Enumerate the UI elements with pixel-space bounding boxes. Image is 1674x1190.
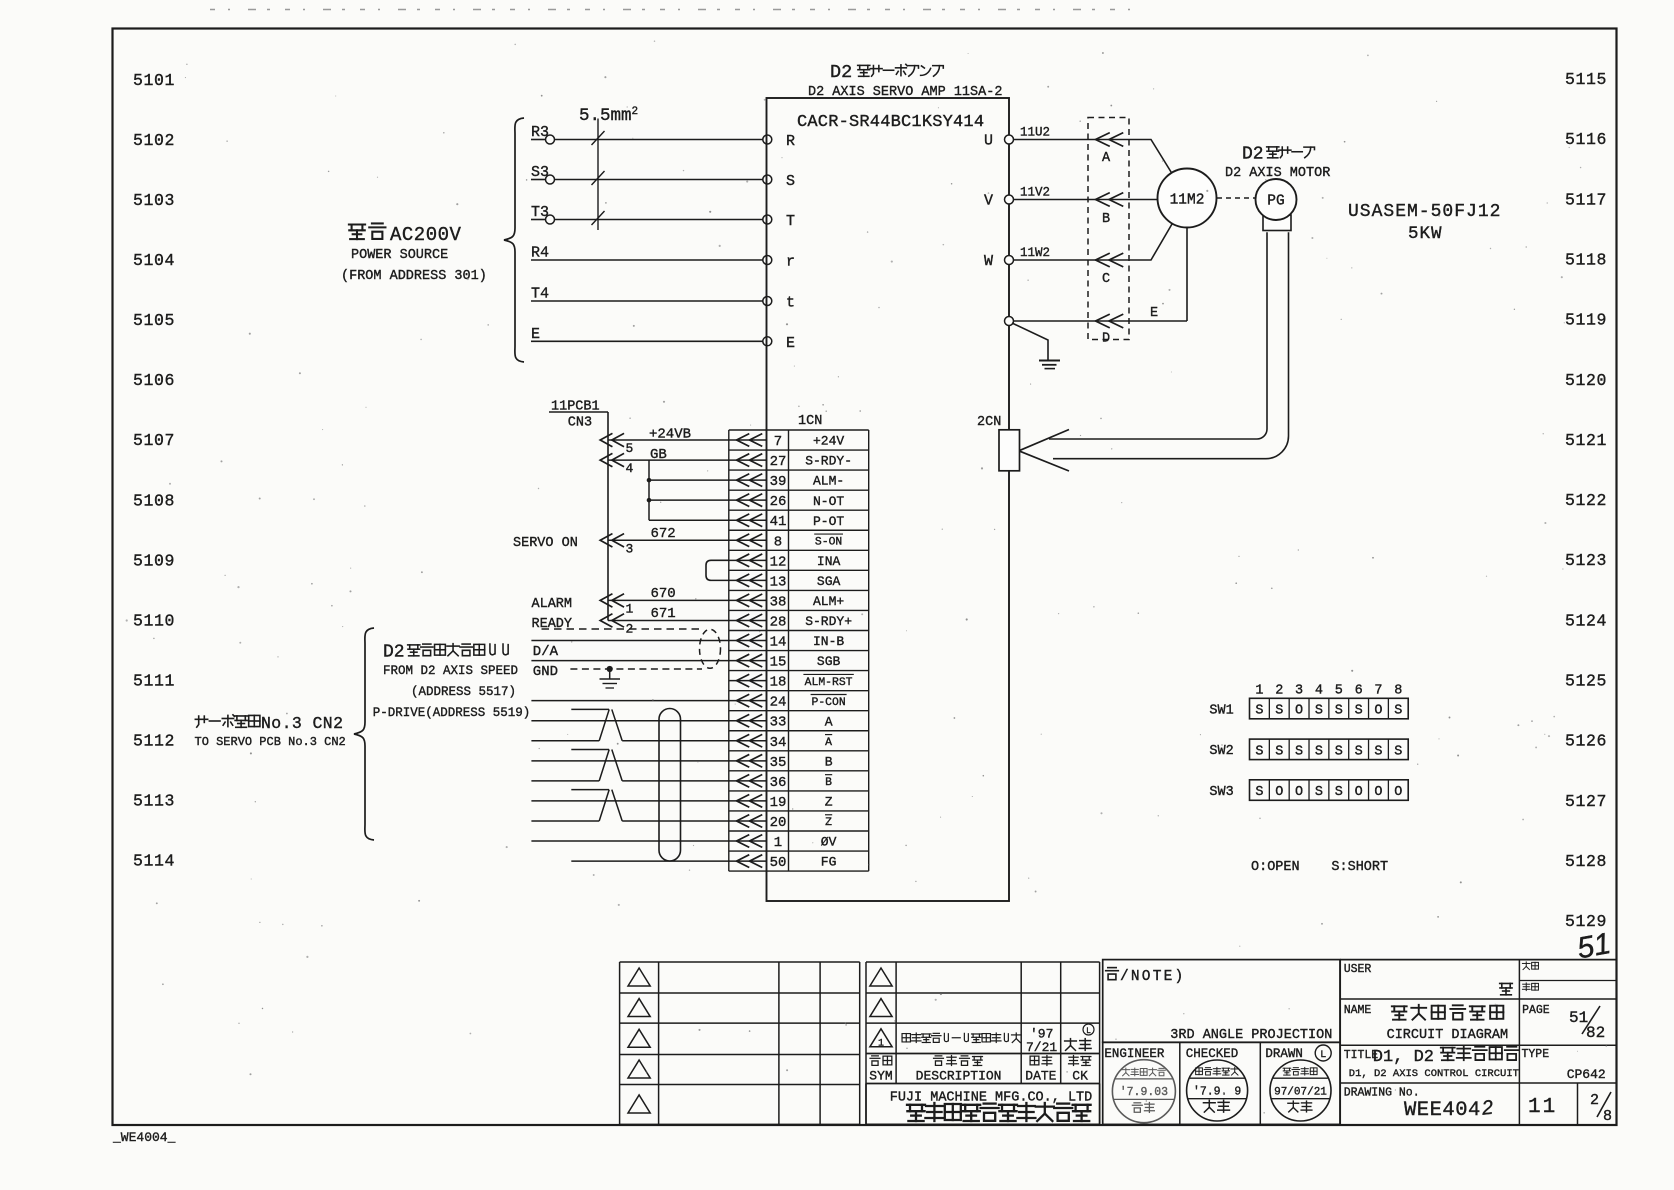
svg-text:5123: 5123 — [1565, 551, 1607, 570]
svg-text:39: 39 — [770, 474, 787, 490]
twisted pair rows 15-16 — [571, 708, 609, 710]
svg-text:DRAWING No.: DRAWING No. — [1344, 1087, 1420, 1100]
CN3 wire pin 3 — [608, 539, 729, 541]
svg-text:1: 1 — [626, 601, 634, 616]
svg-text:E: E — [531, 326, 540, 343]
1CN pin 7 +24V — [729, 439, 767, 441]
1CN pin 19 Z — [729, 800, 767, 802]
1CN pin 39 ALM- — [729, 479, 767, 481]
svg-text:WEE404: WEE404 — [1404, 1099, 1481, 1122]
svg-text:11: 11 — [1528, 1096, 1557, 1119]
svg-text:8: 8 — [1394, 683, 1402, 698]
svg-text:D2 AXIS MOTOR: D2 AXIS MOTOR — [1225, 166, 1330, 181]
svg-text:2: 2 — [1480, 1097, 1494, 1120]
svg-text:AC200V: AC200V — [390, 224, 462, 246]
svg-text:670: 670 — [651, 586, 676, 602]
power source labels — [349, 225, 365, 240]
1CN pin 28 S-RDY+ — [729, 619, 767, 621]
revision triangle L1 — [628, 968, 650, 986]
svg-text:S: S — [1295, 744, 1303, 759]
svg-text:D: D — [1102, 332, 1110, 347]
svg-text:CN3: CN3 — [568, 416, 592, 431]
1CN pin 1 ØV — [729, 840, 767, 842]
amp terminal r — [763, 256, 772, 265]
svg-text:34: 34 — [770, 735, 787, 751]
svg-text:5116: 5116 — [1565, 130, 1607, 149]
amp output terminal circles — [1005, 135, 1014, 144]
svg-text:5113: 5113 — [133, 792, 175, 811]
wire T3 to amp terminal T — [531, 219, 545, 221]
svg-text:TO SERVO PCB No.3 CN2: TO SERVO PCB No.3 CN2 — [195, 735, 346, 749]
svg-text:A: A — [1102, 151, 1111, 166]
svg-text:IN-B: IN-B — [813, 634, 844, 649]
revision triangle M2 — [870, 999, 892, 1017]
svg-text:SERVO ON: SERVO ON — [513, 536, 578, 551]
svg-text:T3: T3 — [531, 204, 549, 221]
revision triangle L4 — [628, 1060, 650, 1078]
svg-text:5121: 5121 — [1565, 431, 1607, 450]
revision table middle — [866, 961, 1100, 963]
svg-text:S: S — [1275, 744, 1283, 759]
svg-text:35: 35 — [770, 755, 787, 771]
svg-text:CK: CK — [1072, 1069, 1088, 1084]
svg-text:33: 33 — [770, 715, 787, 731]
svg-text:14: 14 — [770, 635, 787, 651]
ground terminal — [1005, 317, 1014, 326]
svg-text:SGB: SGB — [817, 654, 841, 669]
stamps row — [1103, 1042, 1340, 1124]
svg-text:GB: GB — [650, 447, 667, 463]
svg-text:D/A: D/A — [533, 644, 559, 660]
svg-text:CP642: CP642 — [1567, 1067, 1606, 1082]
svg-text:SW1: SW1 — [1209, 703, 1233, 718]
svg-text:11U2: 11U2 — [1020, 126, 1050, 140]
svg-text:2CN: 2CN — [977, 415, 1001, 430]
svg-text:USER: USER — [1344, 963, 1372, 976]
svg-text:S: S — [1315, 744, 1323, 759]
revision triangle L2 — [628, 999, 650, 1017]
1CN pin 26 N-OT — [729, 499, 767, 501]
amp terminal t — [763, 297, 772, 306]
svg-text:5117: 5117 — [1565, 190, 1607, 209]
svg-text:L: L — [1086, 1027, 1091, 1036]
FG wire — [571, 860, 729, 862]
servo amp 11SA-2 box — [767, 98, 1010, 901]
svg-text:S: S — [786, 173, 795, 190]
svg-text:5110: 5110 — [133, 611, 175, 630]
svg-text:5111: 5111 — [133, 672, 175, 691]
svg-text:+24V: +24V — [813, 434, 844, 449]
svg-text:_WE4004_: _WE4004_ — [112, 1130, 176, 1145]
svg-text:13: 13 — [770, 574, 787, 590]
svg-text:E: E — [1150, 306, 1158, 321]
note box — [1103, 960, 1340, 1043]
GB branch to ALM- N-OT P-OT — [648, 460, 650, 520]
1CN pin 50 FG — [729, 860, 767, 862]
revision header row — [870, 1056, 880, 1065]
svg-text:ALM+: ALM+ — [813, 594, 844, 609]
revision triangle L3 — [628, 1029, 650, 1047]
PG cable to 2CN — [1049, 232, 1267, 439]
1CN pin 38 ALM+ — [729, 599, 767, 601]
svg-text:2: 2 — [1590, 1092, 1599, 1109]
svg-text:5: 5 — [626, 441, 634, 456]
svg-text:V: V — [984, 193, 993, 210]
cable capsule — [659, 709, 681, 862]
revision triangle L5 — [628, 1095, 650, 1113]
svg-text:5126: 5126 — [1565, 732, 1607, 751]
twisted pair rows 19-20 — [571, 789, 609, 791]
svg-text:O: O — [1295, 704, 1303, 719]
svg-text:No.3 CN2: No.3 CN2 — [261, 714, 343, 733]
scan speckle noise — [126, 40, 1607, 1113]
svg-text:D1, D2 AXIS CONTROL CIRCUIT: D1, D2 AXIS CONTROL CIRCUIT — [1349, 1068, 1519, 1080]
svg-text:SYM: SYM — [869, 1069, 892, 1084]
svg-text:ALM-: ALM- — [813, 474, 844, 489]
twisted pair rows 17-18 — [571, 749, 609, 751]
amp terminal E — [763, 337, 772, 346]
svg-text:5109: 5109 — [133, 551, 175, 570]
svg-text:GND: GND — [533, 664, 558, 680]
svg-text:5101: 5101 — [133, 71, 175, 90]
svg-text:D2: D2 — [830, 62, 852, 83]
svg-text:P-CON: P-CON — [812, 697, 846, 709]
checked stamp — [1187, 1060, 1248, 1121]
1CN pin 33 A — [729, 720, 767, 722]
svg-text:5107: 5107 — [133, 431, 175, 450]
svg-text:+24VB: +24VB — [649, 427, 691, 443]
svg-text:5125: 5125 — [1565, 672, 1607, 691]
svg-text:3RD ANGLE PROJECTION: 3RD ANGLE PROJECTION — [1170, 1028, 1332, 1043]
svg-text:3: 3 — [626, 541, 634, 556]
svg-text:C: C — [1102, 272, 1110, 287]
dashed shaft link — [1217, 197, 1255, 199]
svg-text:O: O — [1394, 785, 1402, 800]
svg-text:11M2: 11M2 — [1170, 193, 1205, 209]
svg-text:4: 4 — [1315, 683, 1323, 698]
svg-text:5KW: 5KW — [1408, 224, 1443, 244]
svg-text:1: 1 — [1255, 683, 1263, 698]
svg-text:CIRCUIT DIAGRAM: CIRCUIT DIAGRAM — [1387, 1028, 1509, 1043]
PG pedestal — [1263, 215, 1291, 231]
svg-text:5112: 5112 — [133, 732, 175, 751]
motor wire 11V2 — [1013, 199, 1157, 201]
svg-text:5106: 5106 — [133, 371, 175, 390]
svg-text:S-ON: S-ON — [815, 536, 842, 548]
svg-text:(ADDRESS 5517): (ADDRESS 5517) — [411, 685, 516, 699]
svg-text:U: U — [984, 133, 993, 150]
svg-text:S: S — [1255, 704, 1263, 719]
svg-text:S: S — [1275, 704, 1283, 719]
servo pcb labels — [195, 716, 207, 727]
svg-text:READY: READY — [532, 617, 573, 632]
svg-text:A: A — [825, 714, 833, 729]
svg-text:5122: 5122 — [1565, 491, 1607, 510]
svg-text:18: 18 — [770, 675, 787, 691]
svg-text:R3: R3 — [531, 124, 549, 141]
CN3 wire pin 4 — [608, 459, 729, 461]
svg-text:ENGINEER: ENGINEER — [1104, 1047, 1165, 1061]
svg-text:W: W — [984, 253, 993, 270]
svg-text:15: 15 — [770, 655, 787, 671]
encoder PG — [1256, 179, 1297, 220]
svg-text:DATE: DATE — [1025, 1069, 1056, 1084]
svg-text:5108: 5108 — [133, 491, 175, 510]
svg-text:SW2: SW2 — [1209, 744, 1233, 759]
motor 11M2 — [1158, 169, 1217, 228]
svg-text:P-OT: P-OT — [813, 514, 844, 529]
svg-text:CACR-SR44BC1KSY414: CACR-SR44BC1KSY414 — [797, 113, 984, 132]
svg-text:B: B — [825, 754, 833, 769]
svg-text:P-DRIVE(ADDRESS 5519): P-DRIVE(ADDRESS 5519) — [373, 706, 531, 720]
svg-text:S3: S3 — [531, 164, 549, 181]
svg-text:A: A — [825, 737, 832, 749]
svg-text:S: S — [1394, 744, 1402, 759]
svg-text:82: 82 — [1586, 1024, 1605, 1042]
svg-text:O: O — [1355, 785, 1363, 800]
engineer stamp — [1112, 1060, 1175, 1123]
CN3 wire pin 1 — [608, 599, 729, 601]
amp terminal T — [763, 215, 772, 224]
svg-text:S: S — [1335, 704, 1343, 719]
1CN pin 14 IN-B — [729, 640, 767, 642]
svg-text:S: S — [1355, 704, 1363, 719]
svg-text:r: r — [786, 254, 795, 271]
motor wire 11U2 — [1013, 140, 1172, 174]
svg-text:S: S — [1335, 744, 1343, 759]
svg-text:5127: 5127 — [1565, 792, 1607, 811]
svg-text:5105: 5105 — [133, 311, 175, 330]
wire S3 to amp terminal S — [531, 179, 545, 181]
svg-text:4: 4 — [626, 461, 634, 476]
svg-text:B: B — [825, 777, 832, 789]
svg-text:TYPE: TYPE — [1522, 1048, 1550, 1061]
svg-text:5114: 5114 — [133, 852, 175, 871]
svg-text:19: 19 — [770, 795, 787, 811]
svg-text:28: 28 — [770, 614, 787, 630]
svg-text:S: S — [1255, 744, 1263, 759]
svg-text:24: 24 — [770, 695, 787, 711]
1CN pin 27 S-RDY- — [729, 459, 767, 461]
svg-text:27: 27 — [770, 454, 787, 470]
svg-text:T4: T4 — [531, 286, 549, 303]
svg-text:5102: 5102 — [133, 131, 175, 150]
svg-text:CHECKED: CHECKED — [1186, 1047, 1239, 1061]
motor wire 11W2 — [1013, 224, 1172, 260]
svg-text:(FROM ADDRESS 301): (FROM ADDRESS 301) — [341, 269, 487, 284]
handwritten page number 51 — [1575, 927, 1614, 965]
svg-text:N-OT: N-OT — [813, 494, 844, 509]
svg-text:R4: R4 — [531, 245, 549, 262]
1CN pin 35 B — [729, 760, 767, 762]
svg-text:6: 6 — [1355, 683, 1363, 698]
1CN pin 41 P-OT — [729, 519, 767, 521]
svg-text:S: S — [1315, 785, 1323, 800]
svg-text:NAME: NAME — [1344, 1004, 1372, 1017]
1CN pin 13 SGA — [729, 579, 767, 581]
svg-text:PAGE: PAGE — [1522, 1004, 1550, 1017]
svg-text:2: 2 — [1275, 683, 1283, 698]
svg-text:3: 3 — [1295, 683, 1303, 698]
svg-text:20: 20 — [770, 815, 787, 831]
svg-text:POWER SOURCE: POWER SOURCE — [351, 248, 448, 263]
svg-text:41: 41 — [770, 514, 787, 530]
svg-text:5.5mm2: 5.5mm2 — [579, 106, 638, 126]
svg-text:8: 8 — [1603, 1108, 1612, 1125]
1CN pin 36 B — [729, 780, 767, 782]
svg-text:D2: D2 — [1242, 145, 1264, 165]
svg-text:5124: 5124 — [1565, 611, 1607, 630]
svg-text:DRAWN: DRAWN — [1265, 1047, 1303, 1061]
svg-text:O: O — [1374, 785, 1382, 800]
1CN pin 15 SGB — [729, 660, 767, 662]
wire R3 to amp terminal R — [531, 139, 545, 141]
svg-text:S:SHORT: S:SHORT — [1331, 860, 1388, 875]
svg-text:S: S — [1355, 744, 1363, 759]
INA-SGA jumper — [706, 560, 729, 580]
svg-text:ALM-RST: ALM-RST — [805, 677, 853, 689]
svg-text:'7.9.03: '7.9.03 — [1120, 1086, 1168, 1099]
svg-text:O: O — [1295, 785, 1303, 800]
svg-text:S: S — [1374, 744, 1382, 759]
title area — [1340, 959, 1616, 961]
svg-text:5103: 5103 — [133, 191, 175, 210]
svg-text:PG: PG — [1267, 194, 1284, 210]
1CN pin 24 P-CON — [729, 700, 767, 702]
svg-text:S: S — [1394, 704, 1402, 719]
svg-text:SGA: SGA — [817, 574, 841, 589]
svg-text:5120: 5120 — [1565, 371, 1607, 390]
svg-text:5: 5 — [1335, 683, 1343, 698]
svg-text:E: E — [786, 335, 795, 352]
svg-text:D2: D2 — [383, 643, 405, 663]
svg-text:26: 26 — [770, 494, 787, 510]
P-CON wire — [531, 700, 728, 702]
1CN pin 12 INA — [729, 559, 767, 561]
svg-text:5118: 5118 — [1565, 250, 1607, 269]
svg-text:S: S — [1335, 785, 1343, 800]
wire E motor frame ground — [1013, 320, 1187, 322]
svg-text:R: R — [786, 133, 795, 150]
amp terminal S — [763, 175, 772, 184]
svg-text:'7.9. 9: '7.9. 9 — [1193, 1086, 1241, 1099]
phase marker dashed box — [1088, 118, 1129, 340]
svg-text:FROM D2 AXIS SPEED: FROM D2 AXIS SPEED — [383, 664, 518, 678]
svg-text:5128: 5128 — [1565, 852, 1607, 871]
svg-text:50: 50 — [770, 855, 787, 871]
svg-text:97/07/21: 97/07/21 — [1274, 1087, 1327, 1099]
svg-text:O: O — [1275, 785, 1283, 800]
svg-text:38: 38 — [770, 594, 787, 610]
svg-text:7: 7 — [1374, 683, 1382, 698]
svg-text:SW3: SW3 — [1209, 785, 1233, 800]
svg-text:S: S — [1315, 704, 1323, 719]
svg-text:t: t — [786, 295, 795, 312]
svg-text:1: 1 — [878, 1038, 884, 1049]
svg-text:DESCRIPTION: DESCRIPTION — [916, 1069, 1002, 1084]
svg-text:T: T — [786, 213, 795, 230]
amp terminal R — [763, 135, 772, 144]
svg-text:S-RDY-: S-RDY- — [805, 454, 852, 469]
CN3 bus — [607, 412, 609, 620]
1CN pin 18 ALM-RST — [729, 680, 767, 682]
svg-text:INA: INA — [817, 554, 841, 569]
svg-text:671: 671 — [651, 606, 676, 622]
wire R4 to amp terminal r — [531, 259, 763, 261]
svg-text:ALARM: ALARM — [532, 597, 573, 612]
svg-text:S-RDY+: S-RDY+ — [805, 614, 852, 629]
0V wire — [531, 840, 728, 842]
GND dashed with earth — [570, 668, 702, 670]
svg-text:672: 672 — [651, 526, 676, 542]
connector 2CN — [999, 430, 1020, 471]
2CN arrow — [1020, 430, 1069, 451]
svg-text:/NOTE): /NOTE) — [1120, 969, 1185, 985]
svg-text:Z: Z — [825, 795, 833, 810]
1CN pin 8 S-ON — [729, 539, 767, 541]
scan artifact dashes top — [210, 9, 1135, 11]
power source brace — [504, 118, 524, 362]
svg-text:USASEM-50FJ12: USASEM-50FJ12 — [1348, 202, 1501, 222]
svg-text:D1, D2: D1, D2 — [1373, 1048, 1434, 1067]
svg-text:11W2: 11W2 — [1020, 246, 1050, 260]
svg-text:O:OPEN: O:OPEN — [1251, 860, 1300, 875]
svg-text:ØV: ØV — [821, 835, 837, 850]
servo pcb brace — [354, 628, 374, 840]
svg-text:7/21: 7/21 — [1026, 1040, 1057, 1055]
earth ground symbol — [1012, 323, 1048, 360]
svg-text:1: 1 — [774, 835, 782, 851]
revision triangle M1 — [870, 968, 892, 986]
svg-text:7: 7 — [774, 434, 782, 450]
wire gauge marker — [597, 119, 599, 231]
svg-text:FG: FG — [821, 855, 837, 870]
svg-text:11V2: 11V2 — [1020, 186, 1050, 200]
shield capsule — [700, 629, 721, 668]
CN3 wire pin 5 — [608, 439, 729, 441]
1CN pin 20 Z — [729, 820, 767, 822]
svg-text:5115: 5115 — [1565, 70, 1607, 89]
wire E to amp terminal E — [531, 340, 763, 342]
revision entry 1 — [870, 1029, 892, 1047]
1CN pin 34 A — [729, 740, 767, 742]
svg-text:D2 AXIS SERVO AMP 11SA-2: D2 AXIS SERVO AMP 11SA-2 — [808, 85, 1002, 100]
drawn stamp — [1270, 1060, 1331, 1121]
revision table left — [620, 961, 860, 963]
wire T4 to amp terminal t — [531, 300, 763, 302]
svg-text:O: O — [1374, 704, 1382, 719]
svg-text:B: B — [1102, 212, 1110, 227]
svg-text:8: 8 — [774, 534, 782, 550]
svg-text:1CN: 1CN — [798, 414, 822, 429]
svg-text:L: L — [1320, 1050, 1326, 1061]
svg-text:S: S — [1255, 785, 1263, 800]
svg-text:5104: 5104 — [133, 251, 175, 270]
svg-text:12: 12 — [770, 554, 787, 570]
CN3 wire pin 2 — [608, 619, 729, 621]
svg-text:36: 36 — [770, 775, 787, 791]
svg-text:5119: 5119 — [1565, 311, 1607, 330]
D/A shielded pair — [542, 628, 701, 630]
